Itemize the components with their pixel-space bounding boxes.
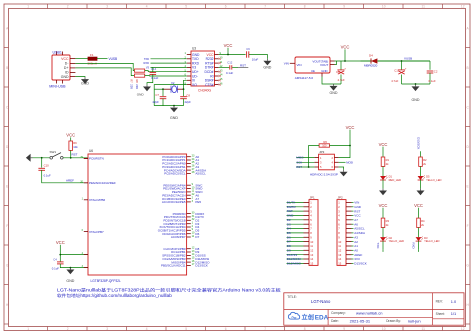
svg-text:A3: A3 [354, 236, 358, 240]
svg-text:B: B [6, 66, 8, 70]
svg-text:6: 6 [225, 5, 227, 9]
svg-text:VCC: VCC [341, 45, 350, 50]
svg-text:D10/SS: D10/SS [287, 253, 297, 257]
svg-text:2: 2 [67, 5, 69, 9]
svg-text:VIN: VIN [284, 62, 289, 66]
svg-text:www.nulllab.cn: www.nulllab.cn [356, 310, 382, 315]
svg-text:D13/SCK: D13/SCK [195, 264, 208, 268]
svg-text:AC0N/PD7: AC0N/PD7 [171, 235, 186, 239]
svg-text:0.1uF: 0.1uF [151, 76, 158, 80]
svg-text:VCC: VCC [56, 240, 65, 245]
svg-text:D5: D5 [287, 231, 291, 235]
svg-text:22R: 22R [130, 84, 133, 89]
svg-text:3: 3 [106, 327, 108, 331]
svg-text:PE5: PE5 [195, 200, 201, 204]
svg-text:R6: R6 [323, 140, 327, 144]
svg-text:F1: F1 [90, 53, 94, 57]
svg-text:null-jun: null-jun [408, 318, 421, 323]
svg-text:A6: A6 [354, 222, 358, 226]
svg-text:C1: C1 [394, 68, 398, 72]
svg-text:0.1uF: 0.1uF [429, 79, 436, 83]
svg-text:GND: GND [170, 116, 178, 120]
svg-text:Company:: Company: [331, 311, 346, 315]
svg-text:VCC: VCC [379, 142, 388, 147]
svg-text:VCC: VCC [379, 203, 388, 208]
svg-text:GND: GND [137, 92, 145, 96]
svg-text:D4: D4 [287, 227, 291, 231]
svg-text:22R: 22R [135, 84, 138, 89]
svg-text:XO: XO [192, 83, 197, 87]
svg-text:C14: C14 [151, 67, 157, 71]
svg-text:D6: D6 [287, 235, 291, 239]
svg-text:3: 3 [106, 5, 108, 9]
svg-text:UE: UE [311, 69, 315, 73]
svg-text:GND: GND [412, 98, 420, 102]
svg-text:D9: D9 [287, 248, 291, 252]
svg-text:R232: R232 [206, 57, 214, 61]
svg-text:CTS#: CTS# [205, 83, 214, 87]
svg-text:DSR#: DSR# [205, 79, 214, 83]
svg-text:REV:: REV: [436, 300, 443, 304]
svg-text:RXD: RXD [192, 61, 200, 65]
svg-text:1/1: 1/1 [451, 311, 456, 316]
svg-text:LGT-Nano是nulllab基于LGT8F328P出品的: LGT-Nano是nulllab基于LGT8F328P出品的一款引脚和尺寸完全兼… [57, 287, 281, 293]
svg-text:AREF: AREF [354, 253, 362, 257]
svg-text:RXD: RXD [412, 243, 416, 249]
svg-text:VIN: VIN [354, 201, 359, 205]
svg-text:10: 10 [382, 5, 386, 9]
svg-text:2021-05-31: 2021-05-31 [350, 318, 371, 323]
svg-text:D0/RX: D0/RX [287, 205, 296, 209]
svg-text:GND: GND [263, 65, 271, 69]
svg-text:TXD: TXD [192, 57, 199, 61]
svg-text:0.1uF: 0.1uF [52, 266, 59, 270]
svg-text:D13/SCK: D13/SCK [417, 137, 421, 149]
svg-text:Date:: Date: [331, 319, 339, 323]
svg-text:TXD: TXD [376, 243, 380, 249]
svg-text:MISO: MISO [296, 156, 304, 160]
svg-text:D13/SCK: D13/SCK [354, 262, 367, 266]
svg-text:RTS#: RTS# [205, 61, 214, 65]
svg-text:EDA: EDA [315, 315, 329, 322]
svg-text:VCC: VCC [346, 125, 355, 130]
svg-text:RST: RST [287, 209, 293, 213]
svg-text:12: 12 [461, 5, 465, 9]
svg-text:8: 8 [304, 5, 306, 9]
svg-text:22pF: 22pF [185, 100, 192, 104]
svg-text:GND: GND [192, 53, 200, 57]
svg-text:C10: C10 [44, 163, 50, 167]
svg-text:4.7uF: 4.7uF [338, 78, 345, 82]
svg-text:RI: RI [210, 74, 213, 78]
svg-text:9: 9 [343, 5, 345, 9]
svg-text:8: 8 [304, 327, 306, 331]
svg-text:HDR-IDC-2.54-2X3P: HDR-IDC-2.54-2X3P [310, 172, 338, 176]
svg-text:ID: ID [65, 71, 69, 75]
svg-text:A2: A2 [354, 240, 358, 244]
svg-text:D2: D2 [287, 218, 291, 222]
svg-text:D7: D7 [195, 235, 199, 239]
svg-text:LGT-Nano: LGT-Nano [311, 299, 331, 304]
svg-text:D4: D4 [369, 53, 373, 57]
svg-text:100: 100 [322, 145, 327, 148]
svg-text:AREF: AREF [66, 178, 74, 182]
svg-text:USB1: USB1 [53, 51, 62, 55]
svg-text:D3: D3 [287, 222, 291, 226]
svg-text:VUSB: VUSB [404, 56, 412, 60]
svg-text:E: E [6, 185, 8, 189]
svg-text:4: 4 [146, 327, 148, 331]
svg-text:C6: C6 [246, 47, 250, 51]
svg-text:6: 6 [225, 327, 227, 331]
svg-text:DTR#: DTR# [205, 66, 214, 70]
svg-text:RST: RST [354, 209, 360, 213]
svg-text:10uF: 10uF [252, 57, 259, 61]
svg-text:D11/MOSI: D11/MOSI [287, 257, 301, 261]
svg-text:3V3: 3V3 [354, 257, 360, 261]
svg-text:GND: GND [321, 69, 327, 73]
svg-text:9: 9 [343, 327, 345, 331]
svg-text:GND: GND [81, 81, 89, 85]
svg-text:UD+: UD+ [192, 70, 199, 74]
svg-text:4: 4 [146, 5, 148, 9]
svg-text:RST: RST [72, 153, 78, 157]
svg-text:RST: RST [240, 63, 246, 67]
svg-text:11: 11 [422, 5, 426, 9]
svg-text:C7: C7 [155, 93, 159, 97]
svg-text:1.0: 1.0 [451, 299, 457, 304]
svg-text:D+: D+ [64, 66, 69, 70]
svg-text:X2: X2 [171, 81, 175, 85]
svg-text:GND: GND [354, 205, 362, 209]
svg-text:22pF: 22pF [153, 100, 160, 104]
svg-text:PC6/RSTN: PC6/RSTN [89, 157, 104, 161]
svg-text:5: 5 [185, 5, 187, 9]
svg-text:C3: C3 [336, 70, 340, 74]
svg-text:D1/TX: D1/TX [287, 201, 296, 205]
svg-text:VUSB: VUSB [109, 57, 118, 61]
svg-text:F: F [6, 224, 8, 228]
svg-text:软件包地址https://github.com/nullla: 软件包地址https://github.com/nulllaborg/ardui… [57, 292, 173, 298]
svg-text:A0: A0 [354, 249, 358, 253]
svg-text:PC5/ADC5/SCL: PC5/ADC5/SCL [164, 172, 186, 176]
svg-text:F: F [467, 224, 469, 228]
svg-text:D8: D8 [287, 244, 291, 248]
svg-text:B: B [467, 66, 469, 70]
svg-text:PB5/SCLK/ADC11: PB5/SCLK/ADC11 [161, 264, 186, 268]
svg-text:SCK: SCK [296, 160, 302, 164]
svg-text:GND: GND [330, 91, 338, 95]
svg-text:C4: C4 [53, 257, 57, 261]
svg-text:VCC: VCC [66, 133, 75, 138]
svg-text:V3: V3 [192, 66, 196, 70]
svg-text:7: 7 [264, 5, 266, 9]
svg-text:VCC: VCC [414, 203, 423, 208]
svg-text:XTALI/PB7: XTALI/PB7 [89, 230, 104, 234]
svg-text:LGT8F328P-QFP32L: LGT8F328P-QFP32L [91, 279, 122, 283]
svg-text:AC1O/OC3A/PE5: AC1O/OC3A/PE5 [162, 200, 186, 204]
svg-text:1: 1 [27, 5, 29, 9]
svg-text:MBR0520: MBR0520 [364, 64, 378, 68]
svg-text:JP1: JP1 [310, 196, 316, 200]
svg-text:SW1: SW1 [50, 150, 57, 154]
svg-text:VIN: VIN [297, 63, 302, 67]
svg-text:XI: XI [192, 79, 195, 83]
svg-text:C12: C12 [227, 60, 233, 64]
svg-text:A4/SDA: A4/SDA [354, 231, 365, 235]
svg-text:A5/SCL: A5/SCL [195, 172, 206, 176]
svg-text:AMS1117-5.0: AMS1117-5.0 [295, 76, 314, 80]
svg-text:VCC: VCC [207, 53, 215, 57]
svg-text:4.7uF: 4.7uF [391, 79, 398, 83]
svg-text:XTALO/PB6: XTALO/PB6 [89, 198, 105, 202]
svg-text:5: 5 [185, 327, 187, 331]
svg-text:7: 7 [264, 327, 266, 331]
svg-text:Sheet:: Sheet: [436, 312, 445, 316]
svg-text:VCC: VCC [224, 43, 233, 48]
svg-text:Drawn By:: Drawn By: [386, 319, 401, 323]
svg-text:A7: A7 [354, 218, 358, 222]
svg-text:VCC: VCC [354, 214, 361, 218]
svg-text:1: 1 [27, 327, 29, 331]
svg-text:GND: GND [61, 75, 69, 79]
svg-text:立创: 立创 [302, 314, 314, 322]
svg-text:0.1uF: 0.1uF [226, 71, 233, 75]
svg-text:MINI-USB: MINI-USB [49, 85, 66, 89]
svg-text:VCC: VCC [61, 57, 69, 61]
svg-text:TITLE:: TITLE: [287, 295, 297, 299]
svg-text:U6: U6 [89, 149, 93, 153]
svg-text:12: 12 [461, 327, 465, 331]
svg-text:A5/SCL: A5/SCL [354, 227, 365, 231]
svg-text:GND: GND [287, 214, 295, 218]
svg-text:D12/MISO: D12/MISO [287, 262, 302, 266]
svg-text:PE6/ADC10/AVREF: PE6/ADC10/AVREF [89, 181, 116, 185]
svg-text:DCD#: DCD# [205, 70, 214, 74]
svg-text:U3: U3 [192, 46, 196, 50]
svg-text:C2: C2 [434, 69, 438, 73]
svg-text:2: 2 [67, 327, 69, 331]
svg-text:VOUT: VOUT [320, 63, 329, 67]
svg-text:A1: A1 [354, 244, 358, 248]
svg-text:E: E [467, 185, 469, 189]
svg-text:JP2: JP2 [338, 196, 344, 200]
svg-text:D7: D7 [287, 240, 291, 244]
svg-text:UD-: UD- [192, 74, 198, 78]
svg-text:10: 10 [382, 327, 386, 331]
svg-text:GND: GND [66, 279, 74, 283]
svg-text:RST: RST [296, 165, 302, 169]
svg-text:CH340G: CH340G [198, 89, 212, 93]
svg-text:JP3: JP3 [319, 150, 325, 154]
svg-text:11: 11 [422, 327, 426, 331]
svg-text:0.1uF: 0.1uF [44, 174, 51, 178]
svg-text:C8: C8 [186, 93, 190, 97]
